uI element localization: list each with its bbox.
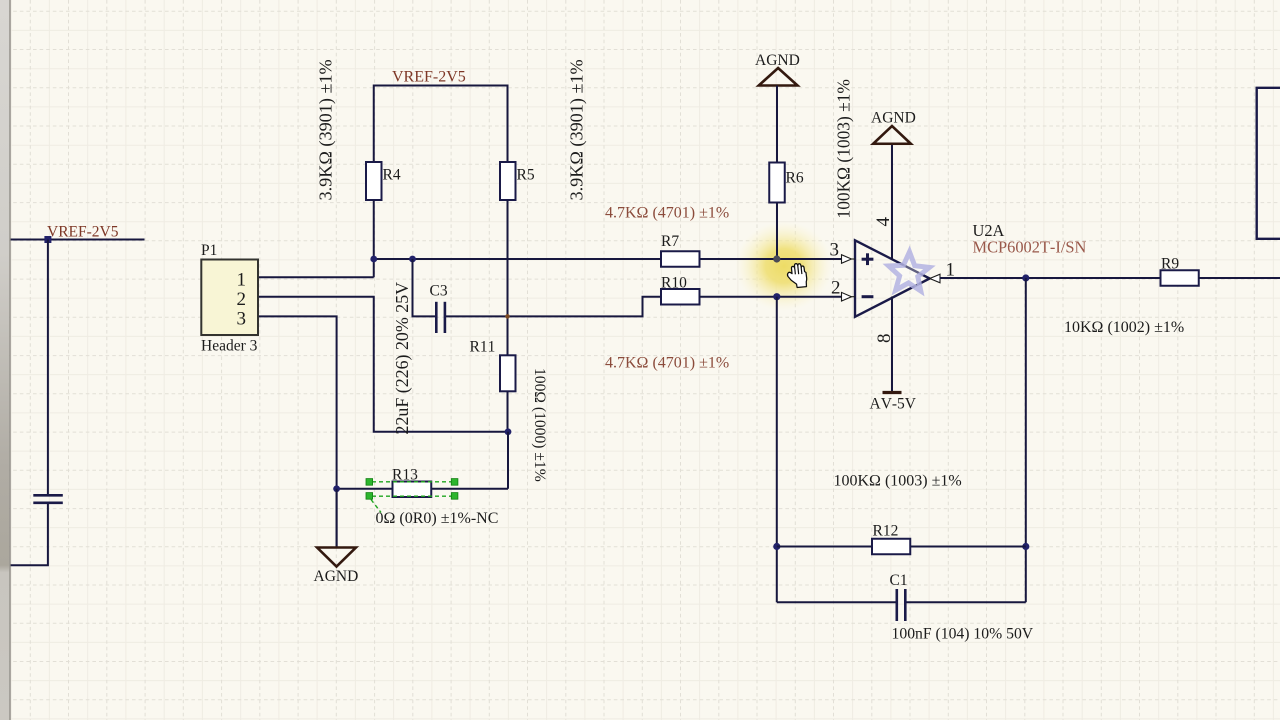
resistor R13 (selected) — [393, 482, 432, 498]
svg-text:4.7KΩ (4701) ±1%: 4.7KΩ (4701) ±1% — [605, 355, 729, 372]
svg-text:3: 3 — [830, 240, 840, 261]
pin 2 arrow — [842, 292, 852, 301]
svg-text:R9: R9 — [1161, 256, 1179, 273]
svg-text:3: 3 — [237, 309, 247, 330]
pin 8 wire — [891, 297, 893, 393]
svg-text:2: 2 — [237, 289, 247, 310]
svg-text:3.9KΩ (3901) ±1%: 3.9KΩ (3901) ±1% — [567, 59, 588, 200]
wire C3 to R10 — [446, 297, 661, 317]
main wire to op-amp pin3 — [374, 258, 661, 260]
minus input marker — [862, 295, 874, 298]
wire R9 right — [1199, 277, 1280, 279]
pin 3 arrow — [842, 255, 852, 264]
crossing dot at R11 column — [505, 314, 510, 319]
svg-text:R10: R10 — [661, 275, 687, 292]
svg-text:4.7KΩ (4701) ±1%: 4.7KΩ (4701) ±1% — [605, 205, 729, 222]
svg-text:C3: C3 — [430, 283, 448, 300]
svg-text:AGND: AGND — [871, 110, 916, 127]
resistor R7 — [661, 251, 700, 267]
wire op-amp output — [940, 277, 1161, 279]
wire R12 row — [777, 546, 872, 548]
svg-text:0Ω (0R0) ±1%-NC: 0Ω (0R0) ±1%-NC — [376, 510, 499, 527]
svg-text:100KΩ (1003) ±1%: 100KΩ (1003) ±1% — [834, 473, 962, 490]
svg-text:C1: C1 — [890, 572, 908, 589]
svg-text:R5: R5 — [517, 167, 535, 184]
connector P1 body — [201, 260, 258, 336]
resistor R5 — [500, 162, 516, 200]
power port AV-5V (bar) — [883, 391, 902, 394]
wire R4 bottom — [373, 200, 375, 277]
pin 1 arrow (output) — [930, 274, 940, 283]
resistor R11 — [500, 355, 516, 391]
wire — [374, 86, 508, 163]
op-amp U2A triangle — [855, 240, 930, 316]
resistor R12 — [872, 539, 910, 555]
wire C3 branch — [413, 259, 436, 316]
svg-text:P1: P1 — [201, 242, 217, 259]
pin 4 wire — [891, 144, 893, 260]
svg-text:R11: R11 — [470, 339, 496, 356]
svg-text:AV-5V: AV-5V — [870, 396, 917, 413]
junction (C3 branch) — [409, 256, 416, 263]
svg-text:R13: R13 — [392, 467, 418, 484]
svg-text:Header 3: Header 3 — [201, 338, 258, 355]
R13 selection dashes — [371, 482, 452, 513]
wire to AGND — [336, 489, 338, 547]
svg-text:VREF-2V5: VREF-2V5 — [392, 69, 466, 86]
svg-text:R12: R12 — [873, 523, 899, 540]
wire pin3 — [259, 316, 337, 546]
partial component body (right edge) — [1257, 88, 1280, 239]
highlight glow — [735, 221, 833, 311]
wire pin2 node down (feedback) — [776, 297, 778, 603]
plus input marker — [862, 253, 874, 265]
junction (pin2 node) — [773, 293, 780, 300]
svg-text:R4: R4 — [383, 167, 401, 184]
resistor R9 — [1161, 270, 1199, 286]
wire R13 row — [337, 488, 393, 490]
svg-text:1: 1 — [237, 270, 247, 291]
scrollbar border — [9, 0, 10, 720]
junction (R4 / main) — [370, 256, 377, 263]
svg-text:R7: R7 — [661, 233, 679, 250]
resistor R6 — [769, 163, 785, 203]
wire down to R13 row — [507, 432, 509, 489]
svg-text:2: 2 — [831, 278, 841, 299]
wire pin2 — [259, 297, 508, 432]
wire — [10, 239, 145, 241]
compile-mask star marker — [889, 252, 930, 291]
svg-text:VREF-2V5: VREF-2V5 — [47, 224, 119, 241]
wire feedback right vertical — [1025, 278, 1027, 602]
svg-text:100KΩ (1003) ±1%: 100KΩ (1003) ±1% — [834, 79, 854, 218]
svg-text:MCP6002T-I/SN: MCP6002T-I/SN — [973, 238, 1087, 257]
wire bottom loop — [777, 601, 896, 603]
svg-text:AGND: AGND — [314, 568, 359, 585]
svg-text:AGND: AGND — [755, 52, 800, 69]
svg-text:100Ω (1000) ±1%: 100Ω (1000) ±1% — [531, 368, 548, 482]
wire R5 bottom — [507, 200, 509, 355]
junction R12 left — [773, 543, 780, 550]
capacitor (left, unlabeled) — [33, 495, 63, 503]
wire — [47, 240, 49, 495]
junction output/feedback — [1022, 274, 1029, 281]
svg-text:22uF (226) 20% 25V: 22uF (226) 20% 25V — [392, 282, 413, 435]
junction (pin3 node, highlighted) — [773, 255, 780, 262]
wire AGND to R6 — [776, 86, 778, 163]
junction pin3/R13 — [333, 485, 340, 492]
wire R11 bottom — [507, 391, 509, 431]
node junction on VREF-2V5 — [44, 236, 51, 243]
R13 selection handles — [366, 479, 458, 500]
svg-text:10KΩ (1002) ±1%: 10KΩ (1002) ±1% — [1064, 319, 1184, 336]
resistor R10 — [661, 289, 700, 305]
svg-text:100nF (104) 10% 50V: 100nF (104) 10% 50V — [892, 626, 1034, 643]
wire R10 to op-amp pin2 — [700, 296, 842, 298]
svg-text:4: 4 — [873, 217, 894, 227]
wire — [10, 504, 48, 566]
wire pin1 — [259, 276, 374, 278]
capacitor C3 — [436, 302, 445, 333]
junction R11/pin2 bracket — [505, 428, 512, 435]
hand cursor — [786, 263, 807, 289]
scrollbar track — [0, 0, 9, 720]
svg-text:3.9KΩ (3901) ±1%: 3.9KΩ (3901) ±1% — [316, 59, 337, 200]
capacitor C1 — [897, 589, 906, 621]
svg-text:8: 8 — [874, 334, 895, 344]
wire R6 bottom — [776, 203, 778, 260]
resistor R4 — [366, 162, 382, 200]
svg-text:R6: R6 — [786, 170, 804, 187]
junction R12 right — [1022, 543, 1029, 550]
power port AGND (bottom) — [317, 548, 356, 567]
